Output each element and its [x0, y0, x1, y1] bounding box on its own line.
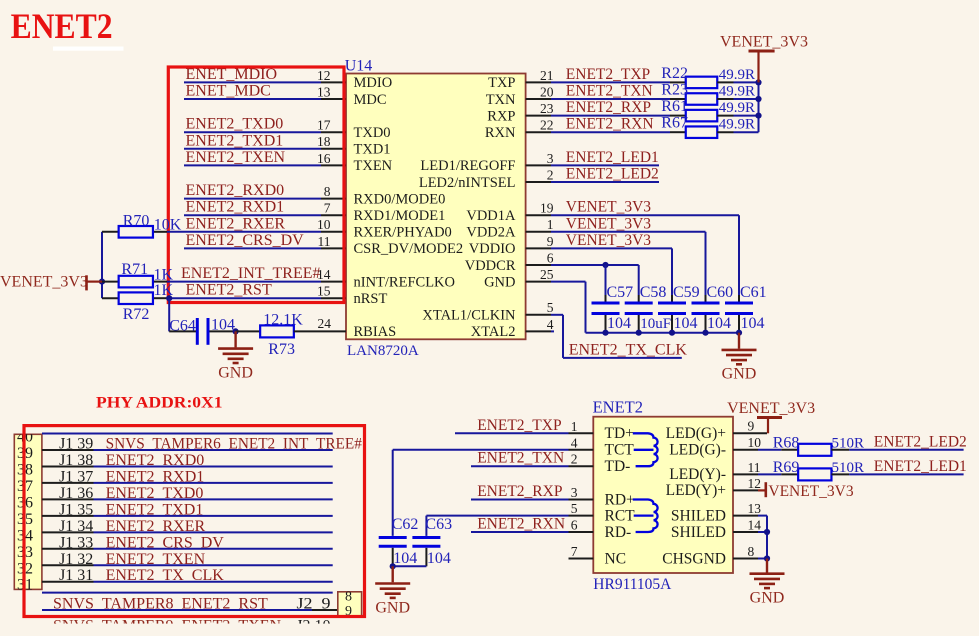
svg-text:ENET2_RST: ENET2_RST	[186, 282, 272, 299]
svg-text:RBIAS: RBIAS	[354, 324, 397, 340]
svg-text:6: 6	[547, 250, 554, 265]
svg-text:23: 23	[540, 101, 554, 116]
svg-text:ENET2_RXP: ENET2_RXP	[477, 483, 562, 500]
svg-text:ENET2_TXD0: ENET2_TXD0	[186, 116, 284, 133]
svg-text:MDC: MDC	[354, 92, 387, 108]
svg-text:XTAL1/CLKIN: XTAL1/CLKIN	[422, 308, 516, 324]
svg-text:1K: 1K	[154, 267, 174, 284]
svg-text:104: 104	[674, 315, 698, 332]
svg-text:R22: R22	[661, 65, 688, 82]
svg-text:RXD0/MODE0: RXD0/MODE0	[354, 191, 446, 207]
svg-text:CSR_DV/MODE2: CSR_DV/MODE2	[354, 241, 464, 257]
svg-text:25: 25	[540, 267, 554, 282]
svg-text:R23: R23	[661, 82, 688, 99]
svg-text:TD-: TD-	[605, 458, 631, 475]
svg-text:ENET2_INT_TREE#: ENET2_INT_TREE#	[181, 265, 321, 282]
svg-text:9: 9	[547, 234, 554, 249]
svg-text:LED(Y)-: LED(Y)-	[669, 466, 726, 483]
svg-text:C60: C60	[707, 284, 734, 301]
svg-text:J1 37: J1 37	[59, 468, 93, 485]
svg-text:MDIO: MDIO	[354, 75, 393, 91]
svg-text:ENET2_RXD1: ENET2_RXD1	[186, 199, 285, 216]
svg-text:17: 17	[317, 118, 331, 133]
svg-text:8: 8	[748, 544, 755, 559]
svg-text:104: 104	[607, 315, 631, 332]
svg-text:VENET_3V3: VENET_3V3	[566, 215, 651, 232]
svg-text:49.9R: 49.9R	[719, 84, 755, 100]
svg-text:ENET2_TXEN: ENET2_TXEN	[186, 149, 286, 166]
svg-text:nINT/REFCLKO: nINT/REFCLKO	[354, 274, 456, 290]
svg-text:VDDIO: VDDIO	[469, 241, 516, 257]
svg-text:R70: R70	[123, 213, 150, 230]
svg-text:ENET2_RXD0: ENET2_RXD0	[186, 182, 285, 199]
svg-text:RD-: RD-	[605, 524, 632, 541]
svg-text:ENET2_RXP: ENET2_RXP	[566, 99, 651, 116]
svg-text:4: 4	[547, 317, 554, 332]
svg-text:ENET2_LED1: ENET2_LED1	[874, 458, 967, 475]
svg-text:J1 32: J1 32	[59, 551, 93, 568]
svg-text:16: 16	[317, 151, 331, 166]
svg-text:49.9R: 49.9R	[719, 100, 755, 116]
svg-text:10: 10	[748, 435, 762, 450]
svg-text:VDD2A: VDD2A	[466, 225, 516, 241]
svg-text:LED(G)+: LED(G)+	[666, 425, 726, 442]
svg-text:VDDCR: VDDCR	[465, 258, 516, 274]
svg-text:SHILED: SHILED	[671, 507, 726, 524]
svg-text:TD+: TD+	[605, 425, 634, 442]
svg-text:C64: C64	[169, 318, 196, 335]
svg-text:104: 104	[427, 550, 451, 567]
svg-text:510R: 510R	[832, 435, 865, 451]
svg-text:TXN: TXN	[486, 92, 516, 108]
svg-text:10K: 10K	[154, 217, 182, 234]
svg-text:20: 20	[540, 84, 554, 99]
svg-text:8: 8	[345, 590, 352, 605]
svg-text:VDD1A: VDD1A	[466, 208, 516, 224]
svg-text:ENET2_LED2: ENET2_LED2	[566, 166, 659, 183]
svg-text:J1 35: J1 35	[59, 501, 93, 518]
svg-text:9: 9	[748, 419, 755, 434]
svg-text:104: 104	[707, 315, 731, 332]
svg-text:3: 3	[547, 151, 554, 166]
svg-text:8: 8	[324, 184, 331, 199]
svg-text:19: 19	[540, 201, 554, 216]
svg-text:XTAL2: XTAL2	[471, 324, 516, 340]
svg-text:2: 2	[547, 167, 554, 182]
svg-text:22: 22	[540, 118, 554, 133]
svg-text:RXD1/MODE1: RXD1/MODE1	[354, 208, 446, 224]
svg-text:R73: R73	[268, 341, 295, 358]
svg-text:TXD1: TXD1	[354, 142, 391, 158]
svg-text:14: 14	[317, 267, 331, 282]
svg-text:13: 13	[317, 84, 331, 99]
svg-text:GND: GND	[375, 599, 410, 616]
svg-text:C58: C58	[640, 284, 667, 301]
svg-text:5: 5	[571, 501, 578, 516]
svg-text:VENET_3V3: VENET_3V3	[566, 232, 651, 249]
svg-text:GND: GND	[484, 274, 515, 290]
svg-text:11: 11	[318, 234, 331, 249]
svg-text:C61: C61	[740, 284, 767, 301]
svg-text:R61: R61	[661, 98, 688, 115]
svg-text:GND: GND	[722, 366, 757, 383]
svg-text:J1 33: J1 33	[59, 534, 93, 551]
svg-text:ENET2: ENET2	[11, 6, 113, 46]
svg-text:RD+: RD+	[605, 491, 635, 508]
svg-text:LED(Y)+: LED(Y)+	[666, 482, 726, 499]
svg-text:ENET2: ENET2	[593, 398, 643, 417]
svg-text:C62: C62	[392, 516, 419, 533]
svg-text:15: 15	[317, 284, 331, 299]
svg-text:R72: R72	[123, 306, 150, 323]
svg-text:ENET2_TXD1: ENET2_TXD1	[186, 132, 284, 149]
svg-text:TXD0: TXD0	[354, 125, 391, 141]
svg-text:ENET2_RXN: ENET2_RXN	[477, 516, 565, 533]
svg-text:104: 104	[211, 317, 235, 334]
svg-text:R71: R71	[121, 261, 148, 278]
svg-text:C57: C57	[607, 284, 634, 301]
svg-text:J1 38: J1 38	[59, 452, 93, 469]
svg-text:TXP: TXP	[488, 75, 515, 91]
svg-text:VENET_3V3: VENET_3V3	[727, 400, 815, 417]
svg-text:VENET_3V3: VENET_3V3	[0, 274, 88, 291]
svg-text:ENET2_TX_CLK: ENET2_TX_CLK	[569, 341, 688, 358]
svg-text:510R: 510R	[832, 460, 865, 476]
svg-text:1: 1	[571, 419, 578, 434]
svg-text:R69: R69	[773, 459, 800, 476]
svg-text:RXER/PHYAD0: RXER/PHYAD0	[354, 225, 452, 241]
svg-text:21: 21	[540, 68, 554, 83]
svg-text:ENET2_LED1: ENET2_LED1	[566, 149, 659, 166]
svg-text:2: 2	[571, 452, 578, 467]
svg-text:PHY ADDR:0X1: PHY ADDR:0X1	[96, 395, 223, 412]
svg-text:ENET2_TXP: ENET2_TXP	[477, 417, 561, 434]
svg-text:12: 12	[748, 476, 762, 491]
svg-text:104: 104	[393, 550, 417, 567]
svg-text:104: 104	[741, 315, 765, 332]
svg-text:18: 18	[317, 134, 331, 149]
svg-text:LED2/nINTSEL: LED2/nINTSEL	[419, 175, 516, 191]
svg-text:U14: U14	[345, 58, 373, 75]
svg-text:VENET_3V3: VENET_3V3	[720, 34, 808, 51]
svg-text:nRST: nRST	[354, 291, 388, 307]
svg-text:49.9R: 49.9R	[719, 67, 755, 83]
svg-text:10uF: 10uF	[640, 316, 671, 332]
svg-text:ENET2_TXP: ENET2_TXP	[566, 66, 650, 83]
svg-text:NC: NC	[605, 550, 627, 567]
svg-text:1: 1	[547, 217, 554, 232]
svg-text:ENET2_LED2: ENET2_LED2	[874, 433, 967, 450]
svg-text:6: 6	[571, 518, 578, 533]
svg-text:ENET_MDC: ENET_MDC	[186, 83, 271, 100]
svg-text:GND: GND	[750, 590, 785, 607]
svg-text:ENET2_RXN: ENET2_RXN	[566, 116, 654, 133]
svg-text:J1 36: J1 36	[59, 485, 93, 502]
svg-text:3: 3	[571, 485, 578, 500]
svg-text:RCT: RCT	[605, 507, 636, 524]
svg-text:J1 34: J1 34	[59, 518, 93, 535]
svg-text:C63: C63	[425, 516, 452, 533]
svg-text:TCT: TCT	[605, 442, 635, 459]
svg-text:TXEN: TXEN	[354, 158, 393, 174]
svg-text:C59: C59	[673, 284, 700, 301]
svg-text:VENET_3V3: VENET_3V3	[566, 199, 651, 216]
svg-text:GND: GND	[218, 364, 253, 381]
svg-text:ENET2_TXN: ENET2_TXN	[566, 83, 653, 100]
svg-text:CHSGND: CHSGND	[662, 550, 726, 567]
svg-text:11: 11	[748, 460, 761, 475]
svg-text:R68: R68	[773, 434, 800, 451]
svg-text:LAN8720A: LAN8720A	[347, 343, 419, 359]
svg-text:24: 24	[318, 316, 332, 331]
svg-text:R67: R67	[661, 115, 688, 132]
svg-text:LED1/REGOFF: LED1/REGOFF	[420, 158, 515, 174]
svg-text:49.9R: 49.9R	[719, 117, 755, 133]
svg-text:RXN: RXN	[485, 125, 516, 141]
svg-text:14: 14	[748, 517, 762, 532]
svg-text:ENET2_RXER: ENET2_RXER	[186, 215, 286, 232]
svg-text:10: 10	[317, 217, 331, 232]
svg-text:VENET_3V3: VENET_3V3	[768, 483, 853, 500]
svg-text:J1 39: J1 39	[59, 435, 93, 452]
svg-text:ENET2_TXN: ENET2_TXN	[477, 450, 564, 467]
svg-text:7: 7	[571, 544, 578, 559]
svg-text:J1 31: J1 31	[59, 567, 93, 584]
svg-text:12.1K: 12.1K	[263, 312, 303, 329]
svg-text:13: 13	[748, 501, 762, 516]
svg-text:SHILED: SHILED	[671, 524, 726, 541]
svg-text:LED(G)-: LED(G)-	[669, 442, 726, 459]
svg-text:ENET2_CRS_DV: ENET2_CRS_DV	[186, 232, 305, 249]
svg-text:HR911105A: HR911105A	[593, 576, 672, 593]
svg-text:12: 12	[317, 68, 331, 83]
svg-text:7: 7	[324, 201, 331, 216]
svg-text:5: 5	[547, 300, 554, 315]
svg-text:RXP: RXP	[487, 108, 515, 124]
svg-text:4: 4	[571, 435, 578, 450]
